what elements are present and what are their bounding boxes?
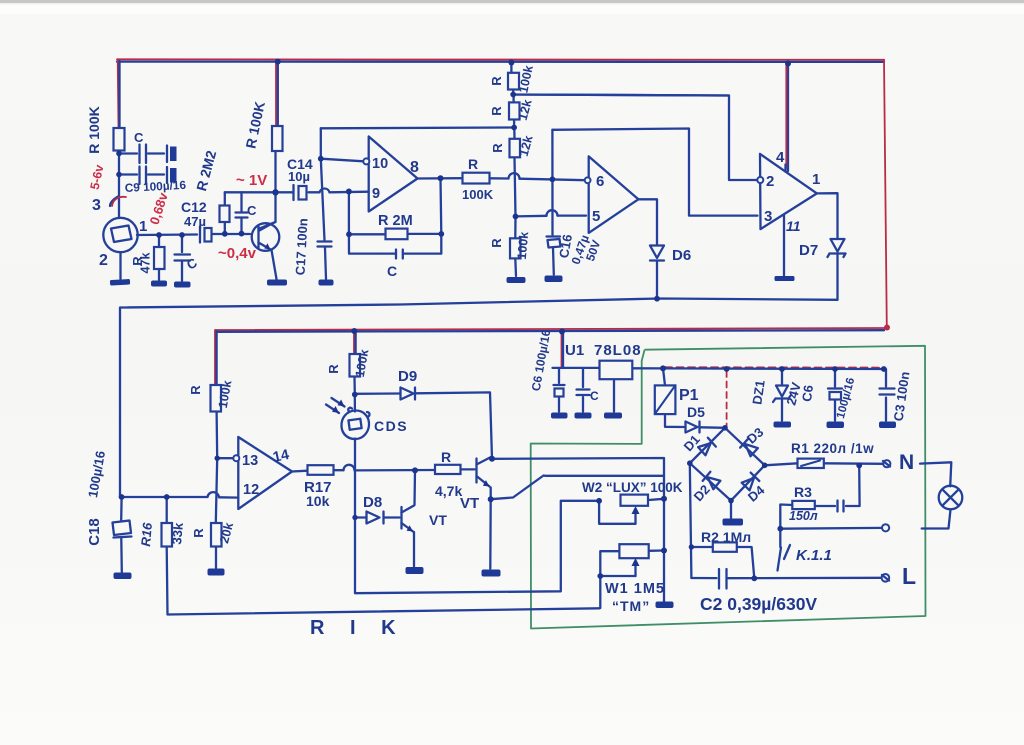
svg-text:9: 9 — [372, 186, 380, 202]
svg-text:“TM”: “TM” — [612, 598, 650, 614]
svg-text:R: R — [490, 143, 505, 153]
svg-text:47µ: 47µ — [184, 214, 206, 229]
svg-text:~0,4v: ~0,4v — [218, 245, 257, 262]
svg-text:N: N — [899, 451, 914, 474]
svg-text:C: C — [247, 203, 257, 218]
svg-text:D6: D6 — [672, 247, 691, 264]
svg-text:R: R — [326, 364, 341, 374]
svg-text:10µ: 10µ — [288, 169, 310, 184]
svg-text:C: C — [590, 389, 599, 403]
svg-text:R: R — [191, 528, 206, 538]
svg-text:R: R — [489, 76, 504, 86]
svg-text:VT: VT — [429, 512, 447, 528]
svg-text:1: 1 — [812, 171, 820, 188]
svg-text:78L08: 78L08 — [594, 342, 642, 359]
svg-text:VT: VT — [460, 495, 479, 512]
svg-text:33k: 33k — [169, 521, 186, 545]
svg-text:4: 4 — [776, 149, 785, 166]
svg-text:8: 8 — [410, 159, 419, 176]
svg-text:U1: U1 — [565, 342, 584, 359]
svg-text:R: R — [188, 385, 203, 395]
svg-text:10: 10 — [372, 156, 388, 172]
svg-text:C18: C18 — [86, 518, 103, 546]
svg-text:R: R — [489, 106, 504, 116]
svg-text:R I K: R I K — [310, 617, 406, 639]
svg-text:4,7k: 4,7k — [435, 483, 462, 499]
svg-text:D9: D9 — [398, 368, 417, 385]
svg-text:13: 13 — [242, 453, 258, 469]
svg-text:~ 1V: ~ 1V — [236, 172, 267, 189]
svg-text:D8: D8 — [363, 494, 382, 511]
svg-text:14: 14 — [272, 447, 291, 466]
svg-text:P1: P1 — [679, 387, 699, 404]
svg-text:W1 1M5: W1 1M5 — [605, 581, 665, 597]
svg-text:CDS: CDS — [374, 418, 408, 434]
svg-text:R1 220л /1w: R1 220л /1w — [791, 441, 874, 456]
svg-text:C: C — [387, 263, 397, 279]
svg-text:L: L — [902, 563, 916, 589]
svg-text:D5: D5 — [687, 404, 705, 420]
svg-text:R: R — [441, 449, 451, 465]
svg-text:R3: R3 — [794, 484, 812, 500]
svg-text:C6: C6 — [799, 384, 816, 403]
svg-text:R: R — [468, 156, 478, 172]
svg-text:10k: 10k — [306, 493, 330, 509]
svg-text:C17 100n: C17 100n — [293, 218, 311, 276]
svg-text:C2 0,39µ/630V: C2 0,39µ/630V — [700, 594, 817, 614]
svg-text:100k: 100k — [515, 231, 531, 260]
svg-text:3: 3 — [92, 197, 101, 214]
svg-text:11: 11 — [786, 218, 801, 234]
svg-text:R 100K: R 100K — [86, 106, 102, 153]
svg-text:R2 1Mл: R2 1Mл — [701, 529, 751, 545]
svg-text:C12: C12 — [181, 199, 207, 215]
svg-text:K.1.1: K.1.1 — [796, 547, 832, 564]
svg-text:C: C — [134, 130, 144, 145]
svg-text:12: 12 — [243, 482, 259, 498]
svg-text:150л: 150л — [789, 509, 818, 523]
svg-text:5: 5 — [592, 208, 600, 225]
svg-text:47k: 47k — [139, 253, 153, 274]
svg-text:R16: R16 — [138, 521, 155, 547]
svg-text:3: 3 — [764, 208, 772, 225]
svg-text:R 2M: R 2M — [378, 213, 413, 229]
svg-text:100K: 100K — [462, 187, 494, 202]
svg-text:R: R — [489, 238, 504, 248]
svg-text:6: 6 — [596, 173, 604, 190]
svg-text:D7: D7 — [799, 242, 818, 259]
svg-text:W2 “LUX” 100K: W2 “LUX” 100K — [582, 480, 683, 495]
svg-text:2: 2 — [766, 173, 774, 190]
svg-text:2: 2 — [99, 252, 108, 269]
